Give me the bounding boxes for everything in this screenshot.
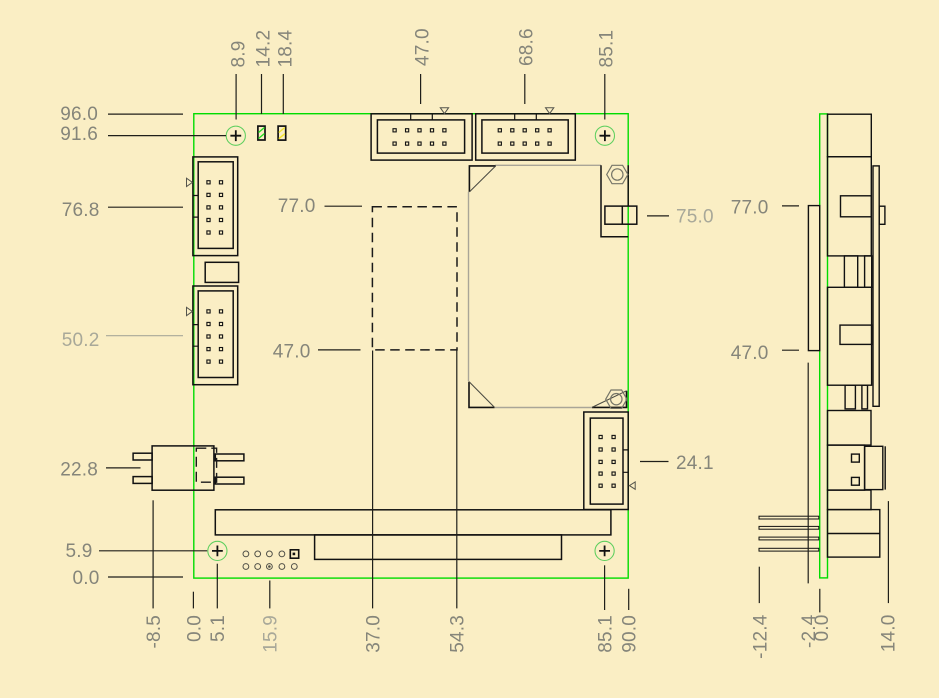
dim leader 91.6 bbox=[108, 135, 226, 137]
bottom-side module (dashed outline) bbox=[372, 207, 457, 350]
dim line 5.1 bbox=[216, 564, 218, 609]
dim line 14.0 bbox=[887, 501, 889, 603]
side: power connector body bbox=[828, 445, 865, 490]
side: block C (left header profile) bbox=[828, 287, 872, 385]
dim line 14.2 bbox=[261, 74, 263, 114]
bus connector row A (long bar) bbox=[215, 510, 611, 535]
svg-text:50.2: 50.2 bbox=[62, 330, 100, 351]
power connector PWR (22.8) bbox=[133, 446, 244, 490]
svg-text:68.6: 68.6 bbox=[516, 28, 537, 66]
svg-text:91.6: 91.6 bbox=[60, 124, 98, 145]
PWR dashed body bbox=[196, 448, 216, 482]
dim line 85.1 (bottom) bbox=[604, 565, 606, 610]
svg-text:24.1: 24.1 bbox=[676, 453, 714, 474]
connector CN1 (75.0 edge block) bbox=[605, 206, 637, 224]
svg-text:0.0: 0.0 bbox=[72, 568, 99, 589]
board outline (green PCB edge) bbox=[194, 114, 628, 578]
dim leader 96.0 bbox=[108, 113, 183, 115]
dim leader 22.8 bbox=[106, 467, 141, 469]
dim leader 47.0 (inner) bbox=[318, 349, 361, 351]
svg-text:8.9: 8.9 bbox=[228, 40, 249, 67]
svg-text:0.0: 0.0 bbox=[812, 615, 833, 642]
dim leader 47.0 (side) bbox=[782, 349, 799, 351]
bus connector row B (lower bar) bbox=[315, 535, 562, 560]
pad P1 (square) bbox=[290, 550, 298, 558]
J5 pins bbox=[599, 435, 615, 487]
mounting hole H3 (bottom-left) bbox=[208, 541, 227, 560]
heatsink corner gusset BR bbox=[592, 391, 627, 408]
dim leader 75.0 bbox=[647, 215, 669, 217]
side: bus pins (4 stack-through rows) bbox=[759, 516, 819, 551]
board edge profile (green) bbox=[820, 114, 828, 578]
svg-text:77.0: 77.0 bbox=[731, 198, 769, 219]
dim leader 77.0 (inner) bbox=[325, 205, 363, 207]
side: spacer blocks below C bbox=[845, 385, 855, 409]
svg-text:22.8: 22.8 bbox=[60, 460, 98, 481]
svg-text:96.0: 96.0 bbox=[60, 104, 98, 125]
J2 pins bbox=[498, 129, 551, 146]
J2 pin-1 marker bbox=[546, 108, 554, 114]
side: top connector block A bbox=[828, 114, 886, 557]
svg-text:-8.5: -8.5 bbox=[144, 615, 165, 649]
side view dimension lines bbox=[759, 206, 888, 613]
connector J1 (top header 2x5) bbox=[371, 114, 472, 160]
heatsink plate (light gray outline) bbox=[469, 165, 602, 407]
svg-text:14.2: 14.2 bbox=[253, 30, 274, 68]
dim line 85.1 (top) bbox=[604, 74, 606, 120]
dim line 68.6 bbox=[524, 74, 526, 104]
dim line 15.9 bbox=[269, 581, 271, 609]
dim line 18.4 bbox=[282, 74, 284, 114]
dim line -12.4 bbox=[758, 567, 760, 603]
mounting hole H2 (top-right) bbox=[595, 126, 614, 145]
dim leader 50.2 bbox=[106, 335, 183, 337]
switch S1 (small rectangle between left headers) bbox=[205, 262, 238, 282]
dim line 0.0 (bottom) bbox=[192, 592, 194, 609]
svg-text:76.8: 76.8 bbox=[62, 200, 100, 221]
dim leader 76.8 bbox=[108, 206, 183, 208]
dim line 54.3 bbox=[456, 351, 458, 609]
svg-text:90.0: 90.0 bbox=[620, 615, 641, 653]
svg-text:37.0: 37.0 bbox=[364, 615, 385, 653]
svg-text:14.0: 14.0 bbox=[879, 615, 900, 653]
svg-text:75.0: 75.0 bbox=[676, 207, 714, 228]
dim leader 77.0 (side) bbox=[782, 205, 799, 207]
J1 pins bbox=[393, 129, 446, 146]
side: block B (left header profile) bbox=[828, 157, 872, 256]
mounting hole H4 (bottom-right) bbox=[595, 541, 614, 560]
dim ext -2.4 bbox=[807, 363, 809, 584]
dim leader 0.0 (left) bbox=[108, 576, 183, 578]
side: step block bbox=[828, 490, 872, 510]
dim line 37.0 bbox=[372, 351, 374, 609]
side: block D bbox=[828, 411, 872, 446]
dim leader 24.1 bbox=[640, 461, 669, 463]
dim line 0.0 (side) bbox=[819, 589, 821, 613]
svg-text:54.3: 54.3 bbox=[448, 615, 469, 653]
J4 pins bbox=[207, 310, 223, 363]
dim line 90.0 bbox=[628, 589, 630, 610]
svg-text:-12.4: -12.4 bbox=[751, 614, 772, 659]
LED D1 (green hatched) bbox=[258, 126, 265, 140]
svg-text:47.0: 47.0 bbox=[412, 28, 433, 66]
dim line -8.5 bbox=[152, 500, 154, 608]
svg-text:85.1: 85.1 bbox=[596, 30, 617, 68]
side: bus connector profile bbox=[828, 510, 880, 557]
connector J5 (bottom-right header 2x5) bbox=[584, 412, 628, 510]
connector J2 (top header 2x5) bbox=[476, 114, 576, 160]
svg-text:15.9: 15.9 bbox=[261, 615, 282, 653]
svg-text:77.0: 77.0 bbox=[278, 196, 316, 217]
svg-text:5.9: 5.9 bbox=[65, 541, 92, 562]
dim line 8.9 bbox=[235, 74, 237, 120]
dim line 47.0 (top) bbox=[420, 74, 422, 104]
side: tab (CN1 profile) bbox=[879, 206, 885, 224]
side: bottom-side heatsink profile bbox=[808, 206, 819, 351]
connector J4 (left header 2x5 lower) bbox=[193, 286, 238, 385]
svg-text:5.1: 5.1 bbox=[208, 615, 229, 642]
J3 pins bbox=[207, 181, 223, 234]
J1 pin-1 marker bbox=[440, 108, 448, 114]
standoff nut N2 bbox=[606, 390, 627, 408]
via field (2x5 pads) bbox=[243, 551, 297, 569]
standoff nut N1 bbox=[607, 165, 628, 183]
heatsink bracket (top-right) bbox=[601, 165, 628, 237]
J4 pin-1 marker bbox=[187, 307, 193, 315]
connector J3 (left header 2x5) bbox=[193, 157, 238, 256]
heatsink corner gusset TL bbox=[469, 166, 495, 192]
dim leader 5.9 bbox=[99, 550, 207, 552]
svg-text:0.0: 0.0 bbox=[184, 615, 205, 642]
svg-text:18.4: 18.4 bbox=[275, 29, 296, 67]
svg-text:47.0: 47.0 bbox=[731, 343, 769, 364]
mounting hole H1 (top-left) bbox=[226, 126, 245, 145]
svg-text:47.0: 47.0 bbox=[273, 342, 311, 363]
J5 pin-1 marker bbox=[629, 482, 635, 489]
heatsink corner gusset BL bbox=[469, 382, 495, 408]
side: spacer blocks between B and C bbox=[844, 256, 857, 287]
svg-text:85.1: 85.1 bbox=[596, 615, 617, 653]
J3 pin-1 marker bbox=[187, 178, 193, 186]
LED D2 (yellow hatched) bbox=[278, 126, 286, 140]
